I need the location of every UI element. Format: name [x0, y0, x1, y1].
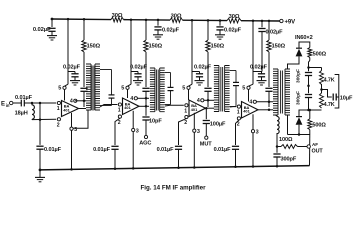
- svg-text:2: 2: [184, 120, 187, 126]
- wire 300pF to ground rail: [276, 157, 278, 166]
- wire bypass stub stage4: [253, 71, 262, 73]
- wire stage2 cap to node: [145, 91, 147, 107]
- capacitor C2 0.01uF: [36, 145, 43, 147]
- svg-text:500Ω: 500Ω: [313, 52, 327, 58]
- capacitor bypass 0.02uF stage3: [199, 72, 201, 74]
- svg-text:AGC: AGC: [139, 141, 151, 147]
- svg-text:MUT: MUT: [200, 141, 212, 147]
- wire U3 to pin3: [193, 113, 195, 129]
- svg-text:150Ω: 150Ω: [149, 43, 163, 49]
- wire 10uF to loop: [336, 96, 339, 98]
- wire R150-2 down: [145, 52, 147, 87]
- wire T3 secondary to pin1 U4: [230, 106, 236, 108]
- wire node A down: [39, 103, 41, 120]
- terminal AF OUT: [307, 145, 310, 148]
- wire pin3 U1 to ground rail: [71, 130, 73, 169]
- terminal MUT: [205, 136, 208, 139]
- terminal AGC: [144, 135, 147, 138]
- wire bias drop stage4: [252, 21, 254, 84]
- svg-text:AF: AF: [312, 142, 318, 147]
- svg-text:300pF: 300pF: [281, 157, 297, 163]
- capacitor 0.02uF decoupling x262: [258, 28, 265, 30]
- diode D1 IN60: [296, 47, 302, 49]
- capacitor 300pF upper: [305, 72, 312, 74]
- svg-text:300pF: 300pF: [295, 91, 301, 105]
- svg-text:OUT: OUT: [312, 149, 324, 155]
- wire U1 output to T1: [79, 108, 87, 110]
- op-amp U4 IF amplifier: [242, 102, 259, 119]
- wire pin3 U3 to ground rail: [193, 132, 195, 167]
- wire pin4 U4 to T4: [256, 101, 273, 103]
- node rail junction stage2 150ohm: [145, 19, 148, 22]
- wire node to 300pF: [276, 147, 278, 153]
- resistor 100&#937;: [277, 146, 281, 148]
- pin 3 U2: [132, 128, 135, 131]
- wire U4 output to T4: [258, 109, 273, 111]
- capacitor C1 0.02uF: [48, 27, 55, 29]
- svg-text:401: 401: [191, 107, 198, 112]
- wire pin3 U4 to ground rail: [252, 133, 254, 167]
- resistor R150-3 150&#937;: [206, 40, 210, 52]
- pin 5 U4: [247, 86, 250, 89]
- op-amp U2 IF amplifier: [123, 98, 140, 115]
- wire Ein to C-in: [13, 102, 21, 104]
- wire cap to ground rail U3: [178, 149, 180, 167]
- svg-text:150Ω: 150Ω: [272, 43, 286, 49]
- wire U1 to pin3: [71, 113, 73, 127]
- wire bypass stub stage2: [131, 71, 138, 73]
- wire detector bracket top: [299, 42, 310, 48]
- wire +9V supply rail segment 3: [183, 19, 228, 21]
- pin 5 U1: [63, 86, 66, 89]
- svg-text:0.01µF: 0.01µF: [214, 147, 232, 153]
- wire rail to 0.02uF x262: [261, 21, 263, 27]
- wire rail to R150-1: [83, 19, 85, 40]
- wire 0.02uF x262 down: [261, 32, 263, 72]
- svg-text:4: 4: [197, 98, 200, 104]
- node rail junction stage3 bias drop: [191, 19, 194, 22]
- svg-text:2: 2: [237, 122, 240, 128]
- svg-text:3: 3: [197, 129, 200, 135]
- svg-text:2: 2: [57, 123, 60, 129]
- wire pin5 to amp top stage4: [248, 89, 250, 101]
- wire chain bottom: [308, 98, 310, 111]
- wire pin2 U3 to cap: [179, 119, 187, 145]
- resistor 500&#937; bottom: [309, 110, 311, 119]
- wire bypass stub stage1: [68, 71, 75, 73]
- svg-text:+9V: +9V: [285, 20, 296, 26]
- resistor R150-1 150&#937;: [82, 40, 86, 52]
- svg-text:30Ω: 30Ω: [171, 14, 182, 20]
- capacitor 0.01uF pin2 U4: [232, 145, 239, 147]
- wire bias drop stage1: [67, 19, 69, 84]
- wire R150-4 down: [268, 52, 270, 87]
- node rail junction cap x220: [219, 19, 222, 22]
- svg-text:3: 3: [256, 130, 259, 136]
- svg-text:0.02µF: 0.02µF: [63, 64, 81, 70]
- svg-text:5: 5: [242, 85, 245, 91]
- wire stage3 cap to node: [207, 91, 209, 107]
- wire T4 to L2: [276, 115, 278, 116]
- wire bias drop stage2: [130, 20, 132, 85]
- wire D1 to T4: [288, 56, 300, 69]
- transformer T4 (detector): [273, 69, 290, 115]
- svg-text:0.01µF: 0.01µF: [15, 95, 33, 101]
- resistor R-30c 30&#937; (in rail): [227, 18, 241, 23]
- wire +9V supply rail segment 1: [52, 18, 111, 21]
- resistor 500&#937; top: [309, 44, 311, 47]
- wire link bottom: [309, 109, 322, 111]
- wire T1 primary return to pin3 U1: [73, 111, 88, 129]
- wire to pin5 stage1: [65, 84, 69, 86]
- op-amp U1 IF amplifier: [62, 101, 79, 117]
- wire 10uF tap: [322, 90, 332, 98]
- svg-text:3: 3: [136, 128, 139, 134]
- svg-text:4.7K: 4.7K: [324, 102, 335, 108]
- wire to pin5 stage3: [189, 84, 193, 86]
- wire rail to R150-3: [207, 20, 209, 40]
- svg-text:5: 5: [182, 85, 185, 91]
- wire pin2 U4 to cap: [236, 120, 239, 145]
- wire U3 output to C-mut: [205, 108, 207, 119]
- wire R150-1 down: [83, 52, 85, 87]
- ground bypass cap stage4: [257, 80, 267, 82]
- ground bypass cap stage2: [133, 80, 143, 82]
- ground bypass cap stage3: [195, 80, 205, 82]
- pin 2 U1: [57, 118, 60, 121]
- pin 1 U1: [57, 101, 60, 104]
- wire detector to ground rail: [309, 135, 311, 166]
- wire +9V supply rail segment 2: [124, 19, 171, 21]
- svg-text:100Ω: 100Ω: [279, 137, 293, 143]
- wire rail to 0.02uF x158: [157, 20, 159, 26]
- resistor R-30a 30&#937; (in rail): [111, 17, 124, 22]
- wire pin5 to amp top stage3: [188, 89, 190, 100]
- transformer T3: [214, 66, 239, 112]
- svg-text:0.01µF: 0.01µF: [93, 147, 111, 153]
- wire stage1 cap to node: [83, 91, 85, 107]
- pin 2 U2: [118, 115, 121, 118]
- wire +9V supply rail segment 4: [241, 20, 280, 22]
- terminal +9V: [280, 19, 283, 22]
- svg-text:0.01µF: 0.01µF: [44, 147, 62, 153]
- wire chain to D2: [299, 110, 309, 117]
- node rail junction cap x158: [157, 19, 160, 22]
- capacitor 10uF: [332, 94, 334, 101]
- capacitor series stage1 (collector feed): [80, 87, 87, 89]
- node rail junction stage2 bias drop: [130, 18, 133, 21]
- capacitor 0.01uF pin2 U2: [111, 145, 118, 147]
- wire stage4 cap to node: [268, 91, 270, 107]
- svg-text:0.01µF: 0.01µF: [157, 147, 175, 153]
- node rail junction stage1 150ohm: [83, 18, 86, 21]
- wire rail to 0.02uF x220: [219, 20, 221, 25]
- pin 5 U2: [126, 86, 129, 89]
- capacitor C-in 0.01uF (series): [20, 100, 22, 107]
- svg-text:150Ω: 150Ω: [87, 43, 101, 49]
- wire 0.02uF x220 to ground: [219, 30, 221, 35]
- wire pin5 to amp top stage2: [127, 89, 129, 98]
- capacitor 300pF output: [273, 153, 280, 155]
- svg-text:30Ω: 30Ω: [229, 14, 240, 20]
- wire pin5 to amp top stage1: [64, 89, 66, 100]
- svg-text:401: 401: [63, 107, 70, 112]
- svg-text:1: 1: [118, 108, 121, 114]
- pin 1 U3: [185, 104, 188, 107]
- wire T1 secondary to pin1 U2: [100, 105, 117, 108]
- capacitor series stage2 (collector feed): [142, 87, 149, 89]
- svg-text:4: 4: [249, 100, 252, 106]
- ground x220: [215, 34, 225, 36]
- pin 5 U3: [187, 86, 190, 89]
- wire U2 output to C-agc: [145, 106, 147, 115]
- wire cap to ground rail U2: [114, 149, 116, 168]
- resistor R150-4 150&#937;: [267, 40, 271, 52]
- svg-text:0.02µF: 0.02µF: [33, 27, 51, 33]
- wire cap to ground rail U4: [235, 149, 237, 166]
- pin 2 U4: [237, 117, 240, 120]
- resistor 4.7K upper: [321, 68, 323, 71]
- svg-text:18µH: 18µH: [15, 110, 28, 116]
- node rail corner: [51, 18, 54, 21]
- node rail junction stage4 150ohm: [268, 20, 271, 23]
- ground (C1): [47, 35, 57, 37]
- wire chain top: [309, 58, 311, 61]
- inductor L1 18uH: [31, 103, 33, 105]
- pin 1 U2: [118, 103, 121, 106]
- wire pin4 U1 to T1: [75, 100, 86, 102]
- wire bias drop stage3: [191, 20, 193, 84]
- wire 0.02uF x158 to ground: [157, 30, 159, 35]
- capacitor 0.02uF decoupling x158: [154, 26, 161, 28]
- ground bypass cap stage1: [70, 80, 80, 82]
- node ground rail corner: [39, 169, 42, 172]
- svg-text:5: 5: [58, 85, 61, 91]
- wire detector loop right: [335, 75, 339, 109]
- wire C1 to ground: [51, 31, 53, 35]
- capacitor 10pF AGC: [142, 116, 149, 118]
- resistor R-30b 30&#937; (in rail): [170, 18, 183, 23]
- svg-text:10pF: 10pF: [149, 118, 162, 124]
- wire to pin5 stage4: [249, 84, 254, 86]
- svg-text:401: 401: [124, 105, 131, 110]
- wire L2 to node: [276, 133, 278, 147]
- wire C-in to node A: [24, 102, 56, 104]
- wire D2 down: [298, 125, 300, 135]
- pin 3 U3: [193, 129, 196, 132]
- wire R150-3 down: [207, 52, 209, 87]
- svg-text:0.02µF: 0.02µF: [194, 64, 212, 70]
- wire ground rail: [40, 166, 310, 170]
- svg-text:IN60×2: IN60×2: [295, 35, 313, 41]
- svg-text:Fig. 14 FM IF amplifier: Fig. 14 FM IF amplifier: [141, 185, 207, 192]
- node rail junction stage3 150ohm: [207, 19, 210, 22]
- wire rail to C1: [51, 19, 53, 27]
- node rail junction stage1 bias drop: [67, 18, 70, 21]
- op-amp U3 IF amplifier: [189, 100, 206, 117]
- wire U3 output to T3: [206, 107, 215, 109]
- ground x158: [153, 34, 163, 36]
- wire T2 secondary to pin1 U3: [165, 104, 184, 107]
- capacitor 0.02uF decoupling x220: [216, 26, 223, 28]
- wire U2 output to T2: [139, 105, 149, 107]
- wire between 300pF caps: [308, 76, 310, 94]
- wire pin3 U2 to ground rail: [132, 132, 134, 169]
- pin 1 U4: [237, 105, 240, 108]
- inductor L2 (tertiary winding): [277, 116, 279, 133]
- wire tank to C2: [39, 120, 41, 145]
- svg-text:1: 1: [237, 110, 240, 116]
- svg-text:0.02µF: 0.02µF: [224, 27, 242, 33]
- node rail junction stage4 bias drop: [252, 20, 255, 23]
- capacitor bypass 0.02uF stage4: [261, 72, 263, 74]
- svg-text:1: 1: [57, 106, 60, 112]
- resistor 4.7K lower: [320, 93, 324, 108]
- svg-text:0.02µF: 0.02µF: [162, 27, 180, 33]
- svg-text:30Ω: 30Ω: [112, 13, 123, 19]
- capacitor bypass 0.02uF stage2: [137, 72, 139, 74]
- svg-text:150Ω: 150Ω: [211, 43, 225, 49]
- wire bypass stub stage3: [192, 71, 200, 73]
- svg-text:10µF: 10µF: [340, 95, 353, 101]
- wire pin4 U2 to T2: [137, 97, 149, 99]
- wire C2 to ground rail: [39, 149, 41, 170]
- capacitor 100uF: [203, 120, 210, 122]
- svg-text:4: 4: [130, 96, 133, 102]
- capacitor series stage4 (collector feed): [265, 87, 272, 89]
- transformer T2: [150, 68, 174, 112]
- wire rail to R150-2: [145, 20, 147, 40]
- wire C-agc to AGC terminal: [145, 120, 147, 135]
- svg-text:0.02µF: 0.02µF: [266, 30, 284, 36]
- wire rail to R150-4: [268, 21, 270, 40]
- wire to pin5 stage2: [128, 84, 132, 86]
- capacitor 300pF lower: [305, 94, 312, 96]
- resistor R150-2 150&#937;: [144, 40, 148, 52]
- pin 3 U1: [70, 127, 73, 130]
- wire detector bottom link: [309, 130, 311, 135]
- wire 4.7K mid: [321, 84, 323, 93]
- wire tank bottom to pin2 U1: [32, 118, 56, 120]
- capacitor series stage3 (collector feed): [204, 87, 211, 89]
- pin 3 U4: [251, 130, 254, 133]
- wire pin4 U3 to T3: [204, 99, 214, 101]
- svg-text:300pF: 300pF: [295, 69, 301, 83]
- svg-text:4: 4: [70, 99, 73, 105]
- wire U4 to pin3: [252, 114, 254, 129]
- transformer T1: [86, 64, 115, 111]
- capacitor bypass 0.02uF stage1: [74, 72, 76, 74]
- wire link top to 4.7K: [309, 67, 322, 69]
- svg-text:0.02µF: 0.02µF: [250, 64, 268, 70]
- svg-text:1: 1: [184, 108, 187, 114]
- svg-text:401: 401: [243, 109, 250, 114]
- wire U2 to pin3: [132, 111, 134, 128]
- ground (main): [39, 170, 41, 178]
- svg-text:4.7K: 4.7K: [324, 78, 335, 84]
- diode D2 IN60: [296, 116, 302, 118]
- svg-text:500Ω: 500Ω: [312, 122, 326, 128]
- pin 2 U3: [185, 115, 188, 118]
- svg-text:2: 2: [118, 120, 121, 126]
- svg-text:0.02µF: 0.02µF: [130, 64, 148, 70]
- svg-text:100µF: 100µF: [210, 122, 226, 128]
- svg-text:E: E: [1, 102, 5, 108]
- node rail junction cap x262: [261, 20, 264, 23]
- wire C-mut to MUT terminal: [205, 124, 207, 137]
- capacitor 0.01uF pin2 U3: [175, 145, 182, 147]
- wire pin2 U2 to cap: [115, 118, 120, 145]
- svg-text:5: 5: [121, 85, 124, 91]
- wire T4 secondary bottom: [287, 115, 289, 135]
